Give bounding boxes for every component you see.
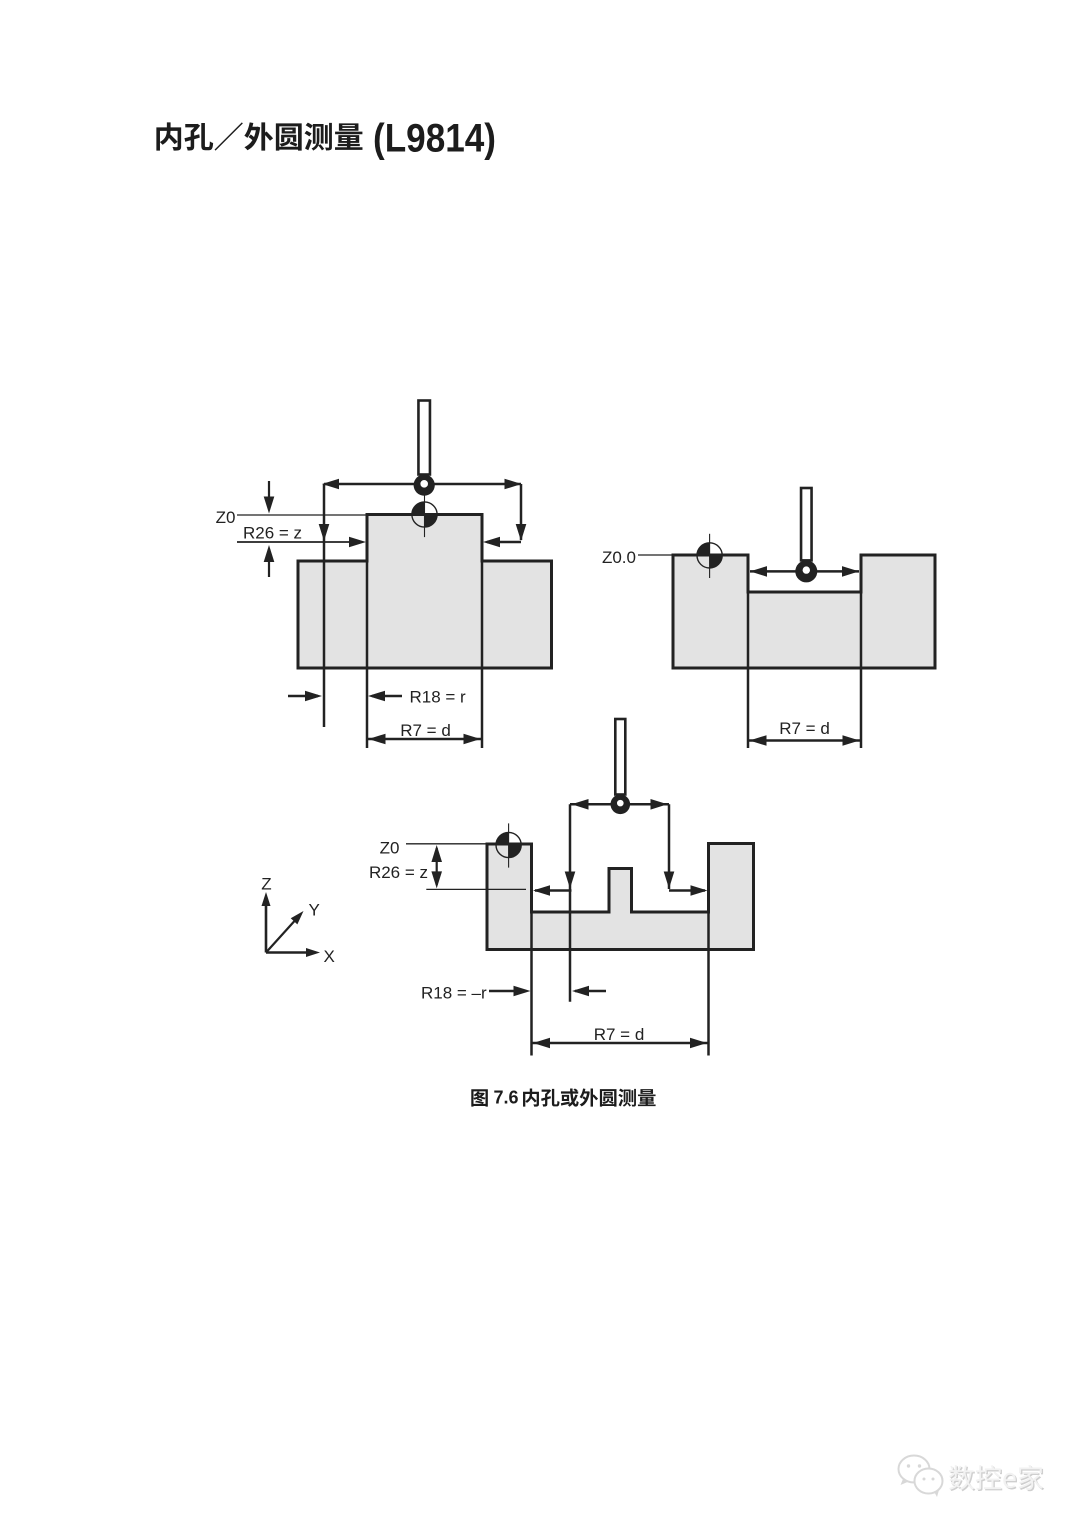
workpiece 2 notch extension right: [860, 592, 863, 748]
workpiece 3 groove extension right: [707, 912, 710, 1056]
probe stylus 1: [414, 401, 435, 496]
datum symbol 2: [697, 534, 722, 578]
svg-text:Y: Y: [309, 901, 320, 920]
small arrow below R26 line 1: [264, 545, 275, 577]
R18 arrow diagram 1: [368, 691, 402, 702]
label R26 = z diagram 3: [369, 863, 428, 882]
title latin text (L9814): [373, 117, 496, 161]
label R18 = r diagram 1: [410, 688, 467, 707]
bottom left arrow diagram 1: [288, 691, 322, 702]
small arrow above Z0 line 1: [264, 481, 275, 514]
coordinate axes: [262, 892, 321, 957]
R7 dimension arrow diagram 3: [532, 1038, 709, 1049]
label R26 = z diagram 1: [243, 524, 302, 543]
svg-text:R26 = z: R26 = z: [369, 863, 428, 882]
R26 reference line 3: [426, 888, 526, 890]
caption latin 7.6: [494, 1087, 519, 1107]
workpiece 1 gray body: [298, 515, 552, 669]
workpiece 3 gray body: [487, 844, 754, 950]
svg-text:Z0.0: Z0.0: [602, 548, 636, 567]
svg-text:7.6: 7.6: [494, 1087, 519, 1107]
dim 3 left vertical line: [565, 804, 576, 1001]
probe travel arrow diagram 2: [750, 566, 859, 577]
R7 dimension arrow diagram 2: [748, 735, 861, 746]
R26 arrow right side 1: [483, 537, 521, 548]
workpiece 1 boss edge extension right: [481, 561, 484, 748]
dim 3 top travel line: [570, 799, 669, 810]
svg-text:R26 = z: R26 = z: [243, 524, 302, 543]
title CJK text 内孔/外圆测量: [156, 122, 362, 150]
svg-text:R7 = d: R7 = d: [779, 719, 830, 738]
touch arrow left diagram 3: [533, 885, 572, 896]
svg-text:R7 = d: R7 = d: [400, 721, 451, 740]
svg-text:Z: Z: [261, 875, 271, 894]
label R18 = -r diagram 3: [421, 984, 487, 1003]
svg-text:R18 = r: R18 = r: [410, 688, 467, 707]
svg-text:X: X: [324, 947, 335, 966]
label R7 = d diagram 1: [400, 721, 451, 740]
svg-text:R18 = –r: R18 = –r: [421, 984, 487, 1003]
R7 dimension arrow diagram 1: [367, 734, 482, 745]
watermark text 数控e家: [949, 1465, 1044, 1491]
label Y axis: [309, 901, 320, 920]
svg-text:Z0: Z0: [216, 508, 236, 527]
R18 arrow left diagram 3: [572, 986, 606, 997]
dim 1 top travel line: [322, 479, 522, 490]
Z0 reference line 3: [406, 843, 487, 845]
R18 arrow right diagram 3: [489, 986, 531, 997]
dim 3 right vertical line: [664, 804, 675, 889]
watermark wechat icon: [899, 1456, 943, 1498]
label R7 = d diagram 3: [594, 1025, 645, 1044]
caption CJK 内孔或外圆测量: [523, 1088, 656, 1106]
svg-text:Z0: Z0: [380, 839, 400, 858]
label Z0 diagram 3: [380, 839, 400, 858]
dim 1 left vertical line: [319, 484, 330, 727]
workpiece 3 groove extension left: [530, 912, 533, 1056]
datum symbol 1: [412, 493, 437, 537]
probe stylus 3: [611, 719, 631, 814]
svg-text:R7 = d: R7 = d: [594, 1025, 645, 1044]
R26 dimension line 1: [237, 537, 366, 548]
Z0 reference line 1: [237, 514, 367, 516]
label R7 = d diagram 2: [779, 719, 830, 738]
workpiece 1 boss edge extension left: [366, 561, 369, 748]
workpiece 2 gray body: [673, 555, 935, 668]
label Z axis: [261, 875, 271, 894]
datum symbol 3: [496, 823, 521, 867]
workpiece 2 notch extension left: [747, 592, 750, 748]
dim 1 right vertical line: [516, 484, 527, 541]
label Z0.0 diagram 2: [602, 548, 636, 567]
Z0.0 reference line 2: [638, 554, 672, 556]
svg-text:(L9814): (L9814): [373, 117, 496, 161]
probe stylus 2: [795, 488, 817, 582]
label Z0 diagram 1: [216, 508, 236, 527]
caption CJK 图: [471, 1089, 488, 1106]
R26 vertical arrow diagram 3: [431, 845, 442, 888]
label X axis: [324, 947, 335, 966]
touch arrow right diagram 3: [669, 885, 708, 896]
